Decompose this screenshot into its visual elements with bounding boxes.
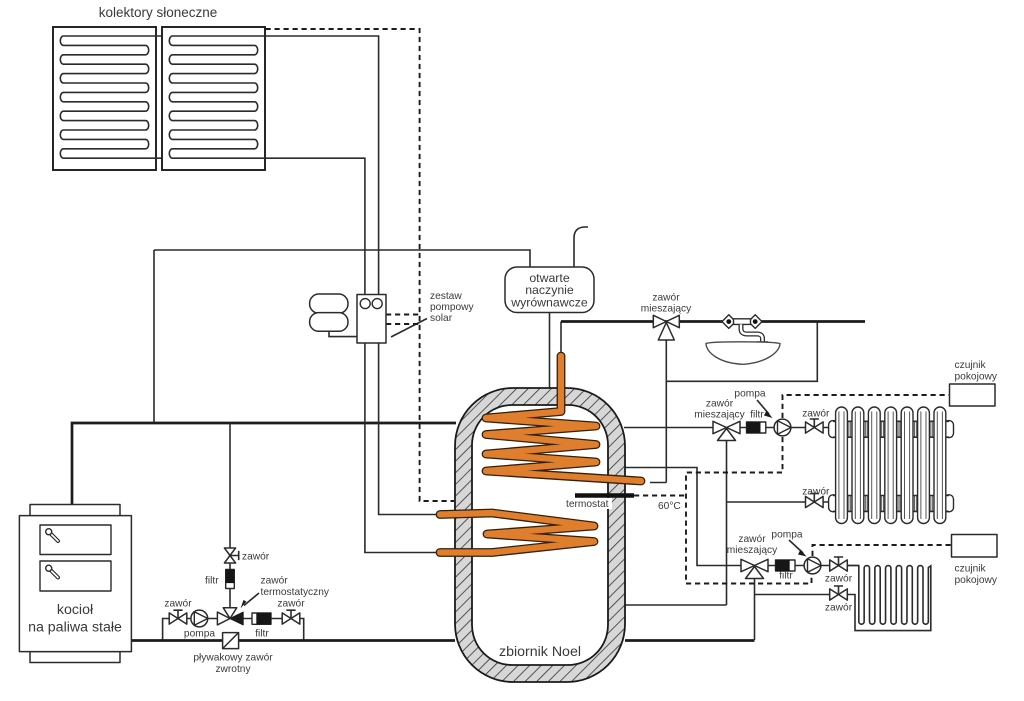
- float check valve plywakowy zawor zwrotny: [223, 633, 239, 649]
- sink tap right: [748, 315, 762, 329]
- valve zawor (floor supply) with handle: [830, 557, 848, 571]
- sink basin: [706, 342, 780, 364]
- wire: upper left horizontal to expansion vessel riser: [154, 250, 530, 267]
- svg-text:termostat: termostat: [566, 499, 609, 510]
- room sensor box czujnik pokojowy (radiator): [950, 384, 996, 406]
- wire: radiator bottom return: [727, 501, 831, 503]
- svg-text:pompa: pompa: [734, 389, 765, 400]
- valve zawor (boiler bypass right) with handle: [282, 610, 300, 624]
- svg-text:zawór: zawór: [825, 603, 853, 614]
- svg-text:filtr: filtr: [779, 571, 793, 582]
- wire: tank to radiator mixing valve: [624, 427, 714, 429]
- svg-text:zawór: zawór: [706, 399, 734, 410]
- pointer line: pompa (radiator): [757, 400, 769, 414]
- room sensor box czujnik pokojowy (floor): [952, 535, 998, 558]
- svg-text:zawór: zawór: [164, 599, 192, 610]
- filter filtr (vertical column): [226, 570, 235, 589]
- svg-text:pokojowy: pokojowy: [955, 575, 998, 586]
- valve zawor (floor return) with handle: [830, 586, 848, 600]
- svg-text:kocioł: kocioł: [57, 602, 94, 618]
- tank zbiornik Noel: hatched wall ring: [455, 388, 625, 682]
- sink mixer bar: [734, 319, 751, 325]
- pump station gauge 2: [372, 299, 382, 309]
- svg-text:zbiornik Noel: zbiornik Noel: [499, 644, 581, 660]
- wire: vent pipe with curve: [574, 227, 588, 267]
- wire: sink loop: [666, 323, 817, 382]
- thermostat probe (thick bar): [575, 493, 634, 498]
- radiator section 6: [918, 407, 930, 524]
- wire: main bottom return right (bold): [625, 639, 755, 642]
- svg-text:zawór: zawór: [802, 409, 830, 420]
- valve zawor (radiator supply) with handle: [806, 419, 824, 433]
- solar pump station box: [357, 295, 386, 344]
- wire: vertical to thermostatic valve column: [229, 423, 231, 548]
- radiator 3-way mixing valve zawor mieszajacy: [713, 421, 740, 440]
- dashed control line: thermostat to bus: [634, 495, 686, 497]
- svg-text:mieszający: mieszający: [694, 410, 745, 421]
- wire: main supply boiler to tank (bold): [72, 423, 456, 505]
- wire: radiator circuit row: [740, 427, 830, 429]
- DHW 3-way mixing valve zawor mieszajacy: [653, 315, 679, 340]
- svg-text:na paliwa stałe: na paliwa stałe: [28, 620, 122, 636]
- boiler upper door: [40, 525, 111, 555]
- svg-text:czujnik: czujnik: [955, 360, 987, 371]
- svg-text:czujnik: czujnik: [955, 564, 987, 575]
- radiator header hatching: [849, 421, 933, 511]
- valve zawor (vertical, above thermostatic valve) with side handle: [224, 548, 238, 563]
- filter filtr (boiler row): [252, 613, 271, 624]
- wire: floor circuit row: [767, 565, 859, 567]
- svg-text:kolektory słoneczne: kolektory słoneczne: [99, 5, 218, 20]
- dashed control line: radiator pump to thermostat bus: [686, 437, 812, 584]
- svg-text:pompa: pompa: [184, 629, 215, 640]
- radiator connection nub bottom-left: [829, 495, 838, 512]
- wire: left vertical x=154: [153, 250, 155, 422]
- solar collector panel 1 frame: [53, 27, 156, 170]
- svg-text:pływakowy zawór: pływakowy zawór: [193, 653, 273, 664]
- thermostatic 3-way valve zawor termostatyczny: [217, 608, 243, 625]
- wire: column valve-filter links: [229, 562, 231, 608]
- sink spout: [741, 324, 768, 341]
- dashed links: pump station to solar control: [386, 315, 420, 325]
- svg-text:zawór: zawór: [802, 487, 830, 498]
- floor 3-way mixing valve zawor mieszajacy: [741, 559, 768, 578]
- radiator section 2: [852, 407, 864, 524]
- expansion vessel box otwarte naczynie wyrownawcze: [505, 267, 594, 313]
- boiler top tab: [30, 505, 120, 517]
- radiator connection nub top-left: [829, 421, 838, 438]
- radiator section 4: [885, 407, 897, 524]
- svg-text:60°C: 60°C: [658, 501, 681, 512]
- lower heat-exchanger coil (boiler side, orange): [440, 513, 594, 553]
- svg-text:wyrównawcze: wyrównawcze: [510, 296, 588, 310]
- pointer line: pompa (floor): [789, 540, 803, 553]
- pump station gauge 1: [360, 299, 370, 309]
- svg-text:zawór: zawór: [261, 576, 289, 587]
- dashed control line: solar sensor from collector to tank: [266, 29, 455, 501]
- svg-text:pokojowy: pokojowy: [955, 372, 998, 383]
- boiler bottom tab: [30, 652, 120, 663]
- radiator section 7: [934, 407, 946, 524]
- boiler upper door handle: [46, 529, 58, 541]
- wire: main bottom return left (bold): [131, 639, 455, 642]
- svg-text:filtr: filtr: [750, 410, 764, 421]
- valve zawor (boiler bypass left) with handle: [169, 610, 187, 624]
- svg-text:zawór: zawór: [825, 574, 853, 585]
- wire: floor bottom return: [755, 594, 832, 596]
- wire: floor-circuit return vertical: [754, 579, 756, 640]
- svg-text:pompa: pompa: [771, 530, 802, 541]
- boiler body kociol na paliwa stale: [19, 516, 131, 652]
- wire: DHW mixing valve drop to coil outlet: [650, 340, 666, 483]
- svg-text:zawór: zawór: [652, 293, 680, 304]
- valve zawor (radiator return) with handle: [806, 494, 824, 508]
- radiator connection nub bottom-right: [944, 495, 954, 512]
- solar collector panel 2 serpentine: [169, 36, 257, 158]
- svg-text:zestaw: zestaw: [430, 291, 462, 302]
- wire: expansion vessel to tank top: [549, 313, 551, 389]
- pointer line: zawor termostatyczny: [244, 593, 259, 606]
- dashed control line: floor room sensor to pump: [813, 545, 952, 556]
- filter filtr (floor row): [776, 560, 796, 571]
- svg-text:mieszający: mieszający: [727, 545, 778, 556]
- boiler lower door handle: [46, 565, 58, 577]
- svg-text:filtr: filtr: [205, 576, 219, 587]
- wire: DHW riser above tank: [560, 322, 562, 357]
- upper heat-exchanger coil (solar, orange): [486, 356, 641, 481]
- svg-text:termostatyczny: termostatyczny: [261, 587, 330, 598]
- wire: vessel connector: [329, 331, 357, 337]
- solar collector panel 1 header runs: [64, 36, 163, 158]
- radiator connection nub top-right: [944, 421, 954, 438]
- svg-text:solar: solar: [430, 313, 453, 324]
- radiator section 5: [901, 407, 913, 524]
- pump pompa (radiator): [774, 419, 791, 436]
- filter filtr (radiator row): [747, 422, 766, 433]
- wire: DHW line to sink (bold): [561, 320, 865, 323]
- pump pompa (floor): [804, 557, 821, 574]
- radiator section 1: [836, 407, 848, 524]
- dashed control line: radiator room sensor to pump: [783, 395, 950, 418]
- sink tap left: [722, 315, 736, 329]
- radiator header lines: [833, 421, 949, 511]
- solar collector panel 2 header runs: [173, 36, 266, 158]
- wire: tank to floor mixing valve: [624, 468, 742, 566]
- svg-text:zawór: zawór: [242, 552, 270, 563]
- solar collector panel 1 serpentine: [60, 36, 148, 158]
- wire: boiler bypass row: [163, 619, 304, 641]
- solar collector panel 2 frame: [162, 27, 265, 170]
- wire: solar return from collector bottom: [265, 158, 365, 294]
- svg-text:zawór: zawór: [277, 599, 305, 610]
- wire: solar supply from collector top: [265, 36, 379, 295]
- svg-text:zwrotny: zwrotny: [215, 664, 251, 675]
- svg-text:pompowy: pompowy: [430, 302, 475, 313]
- solar expansion vessel (two lobes): [310, 294, 348, 313]
- floor heating serpentine coil: [847, 566, 931, 631]
- wire: radiator return drop and tank link: [625, 441, 727, 606]
- boiler lower door: [40, 561, 111, 591]
- pump pompa (boiler): [191, 610, 208, 627]
- svg-text:filtr: filtr: [255, 629, 269, 640]
- radiator section 3: [868, 407, 880, 524]
- wire: solar pipes below pump station to tank coil: [365, 343, 444, 553]
- svg-text:zawór: zawór: [738, 534, 766, 545]
- pointer line: zestaw pompowy solar: [391, 319, 427, 338]
- svg-text:mieszający: mieszający: [641, 304, 692, 315]
